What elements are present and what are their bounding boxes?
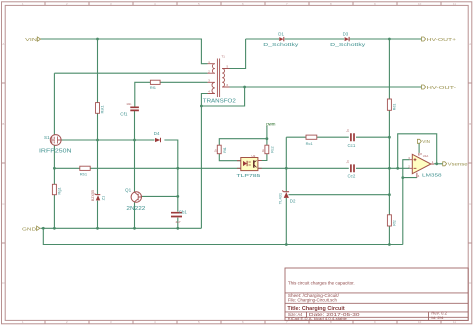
svg-text:2N222: 2N222 — [126, 206, 145, 212]
capacitor Cf1 — [120, 102, 139, 117]
svg-text:GND: GND — [22, 226, 37, 231]
junction (286.3,244.5) — [285, 243, 288, 246]
svg-text:D2: D2 — [290, 198, 296, 203]
svg-text:4u7: 4u7 — [176, 220, 181, 224]
svg-text:This circuit charges the capac: This circuit charges the capacitor. — [288, 281, 355, 286]
junction (177.8,228.3) — [176, 227, 179, 230]
wire opto pwm line — [219, 126, 267, 145]
wire drain line to transformer primary — [54, 73, 207, 135]
svg-text:VIN: VIN — [422, 139, 430, 144]
svg-text:HV-OUT-: HV-OUT- — [427, 85, 457, 90]
svg-text:A: A — [2, 42, 4, 46]
wire startup resistor / zener branch — [97, 39, 99, 228]
optocoupler U2 TLP785 — [236, 154, 261, 179]
svg-text:D: D — [2, 281, 4, 285]
junction (389.4,168.3) — [388, 167, 391, 170]
svg-text:Rg1: Rg1 — [56, 186, 61, 194]
svg-text:C: C — [2, 202, 4, 206]
wire secondary top to output rail — [230, 39, 246, 69]
global label Vsense — [443, 162, 468, 167]
svg-text:File: Charging-Circuit.sch: File: Charging-Circuit.sch — [288, 298, 338, 303]
resistor Rs1 (startup, vertical) — [96, 103, 105, 114]
svg-text:Rc2: Rc2 — [271, 146, 275, 152]
junction (97.5,140) — [96, 139, 99, 142]
svg-text:TLP785: TLP785 — [236, 173, 260, 179]
svg-text:BZX55: BZX55 — [91, 190, 95, 201]
svg-text:10n: 10n — [126, 102, 131, 106]
junction (244.6,87) — [243, 86, 246, 89]
svg-text:Rt1: Rt1 — [223, 147, 227, 153]
wire TL431 branch — [285, 137, 287, 244]
resistor Rg1 (under S1 source, vertical) — [52, 184, 61, 194]
svg-text:Rf2: Rf2 — [393, 220, 397, 226]
pin numbers — [208, 55, 228, 94]
wire Q1 base to node — [141, 195, 177, 197]
junction (389.4,244.5) — [388, 243, 391, 246]
svg-text:Q1: Q1 — [125, 187, 132, 192]
zener Z1 — [91, 190, 106, 201]
junction (201.4,106) — [200, 105, 203, 108]
svg-text:Cc2: Cc2 — [348, 174, 356, 179]
svg-text:B: B — [469, 122, 471, 126]
op-amp U1 LM358 — [408, 152, 442, 178]
svg-text:D_Schottky: D_Schottky — [263, 42, 299, 47]
svg-text:IRFP250N: IRFP250N — [39, 149, 72, 155]
svg-text:Rd1: Rd1 — [393, 104, 397, 111]
wire opto right pins — [258, 154, 267, 161]
wire op-amp feedback loop — [398, 134, 437, 169]
title block — [285, 268, 468, 321]
junction (436.7,163.8) — [435, 162, 438, 165]
svg-text:A: A — [469, 42, 471, 46]
svg-text:Z1: Z1 — [101, 195, 106, 200]
svg-text:C: C — [469, 202, 471, 206]
wire base sense line through Rb1 — [54, 167, 240, 169]
svg-text:pwm: pwm — [266, 121, 276, 126]
svg-text:VIN: VIN — [25, 37, 37, 42]
svg-text:10: 10 — [418, 2, 422, 6]
wire HV-OUT+ rail with diodes — [246, 38, 422, 40]
wire divider chain x389 — [388, 39, 390, 245]
resistor Rf1 (horizontal) — [150, 80, 160, 90]
wire aux winding top to Rf1 — [135, 82, 208, 106]
junction (54.4,228.3) — [53, 227, 56, 230]
junction (402.8,177.6) — [401, 176, 404, 179]
hierarchical label GND — [22, 226, 40, 231]
svg-text:T1: T1 — [222, 55, 226, 59]
wire op-amp non-inverting input — [403, 160, 410, 178]
wire Rc1 Cc1 line — [286, 136, 389, 138]
svg-text:Cc1: Cc1 — [348, 143, 356, 148]
junction (97.5,228.3) — [96, 227, 99, 230]
diode D4 — [154, 131, 161, 142]
svg-text:D_Schottky: D_Schottky — [330, 42, 366, 47]
junction (397.7,168.3) — [396, 167, 399, 170]
svg-text:Rb1: Rb1 — [80, 171, 88, 176]
wire op-amp output to Vsense — [434, 163, 443, 165]
junction (266.9,138.7) — [266, 137, 269, 140]
svg-text:KiCad E.D.A. kicad 4.0.4-stab: KiCad E.D.A. kicad 4.0.4-stable — [288, 316, 347, 321]
junction (54.4,168.3) — [53, 167, 56, 170]
wire VIN rail top — [41, 39, 208, 64]
svg-text:1u: 1u — [346, 160, 350, 164]
wire S1 source to GND rail — [53, 145, 55, 228]
svg-text:Cb1: Cb1 — [179, 210, 188, 215]
svg-text:Vsense: Vsense — [448, 162, 469, 167]
junction (177.8,196.4) — [176, 195, 179, 198]
transistor Q1 2N222 — [125, 187, 146, 211]
resistor Rc1 (horizontal) — [306, 135, 317, 146]
svg-text:D1: D1 — [278, 32, 284, 37]
TL431 D2 — [278, 191, 296, 205]
resistor Rb1 (horizontal) — [80, 166, 90, 176]
wire Cf1 bottom to gate node and Q1 — [134, 111, 136, 228]
transformer TRANSFO2 — [203, 55, 236, 105]
junction (286.3,168.3) — [285, 167, 288, 170]
junction (43.3,228.3) — [42, 227, 45, 230]
global label HV-OUT- — [422, 85, 457, 90]
wire op-amp VIN power — [418, 144, 420, 153]
svg-text:11: 11 — [453, 2, 456, 6]
svg-text:1u: 1u — [346, 129, 350, 133]
diode D3 D_Schottky — [330, 32, 366, 48]
junction (177.8,168.3) — [176, 167, 179, 170]
svg-text:U2: U2 — [252, 154, 256, 158]
svg-text:D3: D3 — [343, 32, 349, 37]
hierarchical label VIN — [25, 37, 40, 42]
svg-text:Rst1: Rst1 — [100, 105, 105, 114]
wire feedback line to op-amp — [258, 167, 410, 169]
svg-text:S1: S1 — [44, 135, 50, 140]
wire aux winding bottom to common — [201, 87, 244, 228]
wire gate line S1 to corner — [61, 140, 178, 228]
junction (134.5,140) — [133, 139, 136, 142]
mosfet S1 IRFP250N — [39, 135, 72, 155]
wire op-amp V- to ground rail — [403, 178, 417, 245]
svg-text:LM358: LM358 — [422, 172, 442, 178]
global label VIN (op-amp supply) — [417, 139, 430, 144]
svg-text:Rc1: Rc1 — [306, 141, 314, 146]
svg-text:D: D — [469, 281, 471, 285]
svg-text:Id: 2/4: Id: 2/4 — [431, 315, 444, 320]
junction (389.4,194.7) — [388, 193, 391, 196]
junction (97.5,39) — [96, 38, 99, 41]
svg-text:B: B — [2, 122, 4, 126]
resistor Rc2 (opto right, vertical) — [261, 145, 274, 154]
svg-text:Rf1: Rf1 — [150, 85, 157, 90]
capacitor Cc1 — [346, 129, 356, 149]
wire opto left pins — [219, 154, 241, 161]
resistor Rt1 (opto left, vertical) — [214, 145, 227, 154]
junction (389.4,137.2) — [388, 136, 391, 139]
resistor Rf2 (divider bottom, vertical) — [387, 215, 396, 226]
svg-text:TRANSFO2: TRANSFO2 — [203, 99, 236, 105]
junction (389.4,39) — [388, 38, 391, 41]
svg-text:HV-OUT+: HV-OUT+ — [427, 37, 457, 42]
diode D1 D_Schottky — [263, 32, 299, 48]
resistor Rd1 (divider top, vertical) — [387, 99, 396, 110]
capacitor Cb1 — [171, 210, 187, 225]
junction (134.5,228.3) — [133, 227, 136, 230]
svg-text:U1A: U1A — [423, 154, 429, 158]
wire TL431 row to divider — [289, 194, 390, 196]
global label HV-OUT+ — [422, 37, 457, 42]
svg-text:TL431: TL431 — [278, 192, 283, 204]
wire GND rail — [41, 228, 403, 244]
wire HV-OUT- rail — [230, 86, 422, 88]
svg-text:Cf1: Cf1 — [120, 112, 128, 117]
capacitor Cc2 — [346, 160, 356, 179]
svg-text:D4: D4 — [154, 131, 160, 136]
